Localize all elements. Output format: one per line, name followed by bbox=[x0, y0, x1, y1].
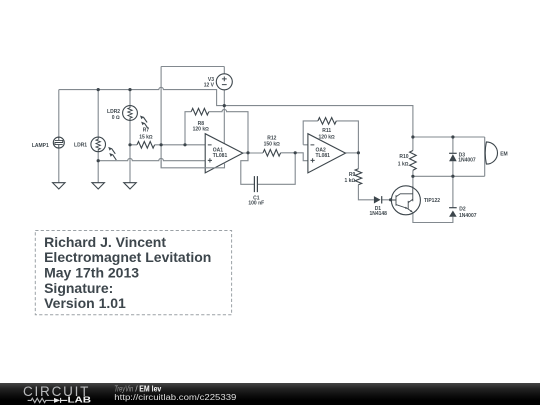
svg-text:May 17th 2013: May 17th 2013 bbox=[44, 265, 139, 281]
svg-text:R7: R7 bbox=[143, 127, 150, 133]
svg-text:120 kΩ: 120 kΩ bbox=[319, 134, 336, 140]
svg-text:1N4007: 1N4007 bbox=[459, 213, 477, 219]
svg-text:15 kΩ: 15 kΩ bbox=[139, 134, 153, 140]
svg-text:Richard J. Vincent: Richard J. Vincent bbox=[44, 234, 166, 250]
svg-text:LAB: LAB bbox=[68, 395, 92, 405]
svg-text:http://circuitlab.com/c225339: http://circuitlab.com/c225339 bbox=[114, 392, 236, 402]
svg-text:LAMP1: LAMP1 bbox=[32, 143, 49, 149]
svg-text:120 kΩ: 120 kΩ bbox=[193, 126, 210, 132]
svg-text:Version 1.01: Version 1.01 bbox=[44, 295, 126, 311]
svg-text:1 kΩ: 1 kΩ bbox=[398, 162, 409, 168]
svg-text:TL081: TL081 bbox=[213, 153, 228, 159]
svg-text:1N4007: 1N4007 bbox=[458, 158, 476, 164]
svg-text:R10: R10 bbox=[399, 154, 408, 160]
svg-text:TIP122: TIP122 bbox=[424, 198, 440, 204]
svg-text:Electromagnet Levitation: Electromagnet Levitation bbox=[44, 249, 211, 265]
svg-text:1 kΩ: 1 kΩ bbox=[345, 178, 356, 184]
svg-text:LDR1: LDR1 bbox=[74, 143, 87, 149]
svg-text:12 V: 12 V bbox=[204, 82, 215, 88]
svg-text:TL081: TL081 bbox=[316, 153, 331, 159]
svg-text:1N4148: 1N4148 bbox=[369, 211, 387, 217]
svg-text:100 nF: 100 nF bbox=[248, 201, 264, 207]
svg-text:EM: EM bbox=[500, 152, 508, 158]
svg-text:0 Ω: 0 Ω bbox=[112, 115, 120, 121]
svg-text:R11: R11 bbox=[322, 128, 331, 134]
svg-text:Signature:: Signature: bbox=[44, 280, 113, 296]
svg-text:150 kΩ: 150 kΩ bbox=[264, 141, 281, 147]
svg-text:D2: D2 bbox=[459, 206, 466, 212]
